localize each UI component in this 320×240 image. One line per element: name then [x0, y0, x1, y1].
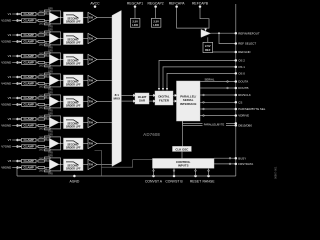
- svg-text:1MΩ: 1MΩ: [39, 158, 44, 160]
- svg-text:1MΩ: 1MΩ: [39, 11, 44, 13]
- resistor 1M ohm series (ch2 bottom): [36, 40, 49, 46]
- svg-text:1MΩ: 1MΩ: [39, 137, 44, 139]
- svg-text:ORDER LPF: ORDER LPF: [66, 61, 81, 65]
- op-amp PGA channel 1: [49, 13, 59, 23]
- input pin V1GND: [1, 19, 21, 23]
- reference 2.5V REF: [203, 37, 213, 52]
- svg-text:AVCC: AVCC: [90, 1, 100, 5]
- pin PAR/SER/BYTE SEL (right): [235, 107, 266, 111]
- svg-text:1MΩ: 1MΩ: [39, 53, 44, 55]
- wire SAR to digital filter: [149, 94, 156, 103]
- wire CS input: [200, 101, 236, 103]
- svg-text:REF: REF: [205, 48, 211, 52]
- wire T/H ch3 to mux: [97, 59, 112, 61]
- wire T/H ch1 to mux: [97, 17, 112, 19]
- op-amp PGA channel 5: [49, 97, 59, 107]
- svg-text:RFB: RFB: [48, 30, 53, 32]
- pin REFIN/REFOUT (right): [235, 31, 260, 35]
- filter SECOND-ORDER LPF channel 8: [59, 159, 83, 171]
- svg-text:1MΩ: 1MΩ: [39, 171, 44, 173]
- input pin V6: [8, 117, 22, 121]
- svg-text:T/H: T/H: [89, 100, 93, 104]
- svg-text:T/H: T/H: [89, 121, 93, 125]
- input pin V1: [8, 12, 22, 16]
- adc 18-BIT SAR: [135, 93, 149, 104]
- clamp block channel 5 (V5): [22, 96, 37, 100]
- op-amp reference buffer: [201, 30, 211, 38]
- clamp block channel 6 (V6): [22, 117, 37, 121]
- track-and-hold T/H channel 7: [83, 138, 97, 148]
- track-and-hold T/H channel 8: [83, 159, 97, 169]
- wire REFCAPA/REFCAPB to reference buffer: [177, 8, 209, 32]
- svg-text:CS: CS: [238, 101, 242, 105]
- clamp block channel 4 (V4GND): [22, 82, 37, 86]
- resistor 1M ohm series (ch4 bottom): [36, 82, 49, 88]
- svg-text:INPUTS: INPUTS: [178, 164, 189, 168]
- svg-text:V2GND: V2GND: [1, 40, 11, 44]
- wire T/H ch6 to mux: [97, 122, 112, 124]
- svg-text:1MΩ: 1MΩ: [39, 32, 44, 34]
- svg-text:OS 0: OS 0: [238, 72, 245, 76]
- wire mux to SAR: [121, 94, 136, 103]
- svg-text:ORDER LPF: ORDER LPF: [66, 103, 81, 107]
- wire REF SELECT: [218, 32, 236, 43]
- input pin V3GND: [1, 61, 21, 65]
- svg-text:RFB: RFB: [48, 111, 53, 113]
- wire interface to CLK OSC: [182, 121, 184, 146]
- svg-text:OS 1: OS 1: [238, 65, 245, 69]
- svg-text:V7GND: V7GND: [1, 145, 11, 149]
- svg-text:LDO: LDO: [132, 23, 138, 27]
- clamp block channel 8 (V8GND): [22, 166, 37, 170]
- svg-text:RD/SCLK: RD/SCLK: [238, 93, 251, 97]
- svg-text:RFB: RFB: [48, 174, 53, 176]
- wire T/H ch4 to mux: [97, 80, 112, 82]
- svg-text:CONVST B: CONVST B: [165, 180, 183, 184]
- resistor 1M ohm series (ch7 bottom): [36, 145, 49, 151]
- resistor 1M ohm series (ch3 bottom): [36, 61, 49, 67]
- clamp block channel 1 (V1GND): [22, 19, 37, 23]
- svg-text:1MΩ: 1MΩ: [39, 24, 44, 26]
- svg-text:CLK OSC: CLK OSC: [175, 148, 189, 152]
- resistor 1M ohm series (ch4 top): [36, 74, 49, 78]
- svg-text:V2: V2: [8, 33, 12, 37]
- svg-text:MUX: MUX: [113, 97, 120, 101]
- svg-text:CLAMP: CLAMP: [24, 33, 34, 37]
- svg-text:FRSTDATA: FRSTDATA: [238, 162, 253, 166]
- regulator 2.5V LDO (1): [130, 18, 140, 27]
- resistor RFB feedback (ch8): [44, 156, 61, 176]
- svg-text:1MΩ: 1MΩ: [39, 74, 44, 76]
- resistor 1M ohm series (ch1 bottom): [36, 19, 49, 25]
- input pin V2: [8, 33, 22, 37]
- svg-text:RFB: RFB: [48, 114, 53, 116]
- wire DOUTB (serial out): [200, 87, 236, 89]
- clamp block channel 3 (V3GND): [22, 61, 37, 65]
- pin RD/SCLK (right): [235, 93, 251, 97]
- pin BUSY (right): [235, 156, 247, 160]
- svg-text:CLAMP: CLAMP: [24, 82, 34, 86]
- svg-text:V4: V4: [8, 75, 12, 79]
- svg-text:DOUTA: DOUTA: [238, 80, 248, 84]
- input pin V2GND: [1, 40, 21, 44]
- svg-text:REF SELECT: REF SELECT: [238, 42, 256, 46]
- svg-text:CLAMP: CLAMP: [24, 124, 34, 128]
- op-amp PGA channel 7: [49, 139, 59, 149]
- wire T/H ch5 to mux: [97, 101, 112, 103]
- pin OS 1 (right): [235, 65, 246, 69]
- pin RANGE (bottom): [202, 168, 215, 183]
- filter SECOND-ORDER LPF channel 7: [59, 138, 83, 150]
- pin FRSTDATA (right): [235, 162, 254, 166]
- pin REGCAP2 (top): [147, 1, 163, 18]
- svg-text:RFB: RFB: [48, 153, 53, 155]
- svg-text:RFB: RFB: [48, 72, 53, 74]
- wire control routing to T/H: [95, 151, 153, 177]
- svg-text:REFGND: REFGND: [238, 50, 250, 54]
- wire OS 0 to digital filter: [166, 73, 236, 90]
- wire T/H ch7 to mux: [97, 143, 112, 145]
- svg-text:RFB: RFB: [48, 135, 53, 137]
- svg-text:ORDER LPF: ORDER LPF: [66, 145, 81, 149]
- svg-text:CLAMP: CLAMP: [24, 96, 34, 100]
- input pin V8: [8, 159, 22, 163]
- input pin V8GND: [1, 166, 21, 170]
- wire T/H ch2 to mux: [97, 38, 112, 40]
- svg-text:CLAMP: CLAMP: [24, 75, 34, 79]
- svg-text:RFB: RFB: [48, 48, 53, 50]
- svg-text:RFB: RFB: [48, 51, 53, 53]
- svg-text:V1: V1: [8, 12, 12, 16]
- op-amp PGA channel 4: [49, 76, 59, 86]
- wire buffer output to REFIN/REFOUT pin: [211, 32, 236, 34]
- svg-text:RFB: RFB: [48, 93, 53, 95]
- svg-text:AD7608: AD7608: [143, 132, 160, 137]
- svg-text:CLAMP: CLAMP: [24, 12, 34, 16]
- svg-text:ORDER LPF: ORDER LPF: [66, 166, 81, 170]
- clamp block channel 7 (V7GND): [22, 145, 37, 149]
- svg-text:V1GND: V1GND: [1, 19, 11, 23]
- svg-text:V3GND: V3GND: [1, 61, 11, 65]
- track-and-hold T/H channel 6: [83, 117, 97, 127]
- chip bottom border: [17, 169, 236, 176]
- svg-text:2.5V: 2.5V: [132, 20, 138, 24]
- resistor 1M ohm series (ch8 top): [36, 158, 49, 162]
- svg-text:T/H: T/H: [89, 79, 93, 83]
- resistor 1M ohm series (ch6 bottom): [36, 124, 49, 130]
- wire DOUTA (serial out): [200, 77, 236, 82]
- svg-text:CLAMP: CLAMP: [24, 19, 34, 23]
- resistor RFB feedback (ch5): [44, 93, 61, 113]
- svg-text:V6: V6: [8, 117, 12, 121]
- track-and-hold T/H channel 4: [83, 75, 97, 85]
- svg-text:RFB: RFB: [48, 27, 53, 29]
- svg-text:CLAMP: CLAMP: [24, 159, 34, 163]
- svg-text:V8GND: V8GND: [1, 166, 11, 170]
- svg-text:OS 2: OS 2: [238, 59, 245, 63]
- resistor RFB feedback (ch6): [44, 114, 61, 134]
- op-amp PGA channel 2: [49, 34, 59, 44]
- pin DOUTB (right): [235, 86, 249, 90]
- svg-text:CLAMP: CLAMP: [24, 138, 34, 142]
- svg-text:1MΩ: 1MΩ: [39, 45, 44, 47]
- resistor 1M ohm series (ch6 top): [36, 116, 49, 120]
- wire filter to interface: [173, 94, 177, 103]
- svg-text:INTERFACE: INTERFACE: [180, 102, 196, 106]
- clamp block channel 4 (V4): [22, 75, 37, 79]
- track-and-hold T/H channel 3: [83, 54, 97, 64]
- svg-text:T/H: T/H: [89, 163, 93, 167]
- regulator 2.5V LDO (2): [151, 18, 161, 27]
- track-and-hold T/H channel 2: [83, 33, 97, 43]
- svg-text:V7: V7: [8, 138, 12, 142]
- clamp block channel 8 (V8): [22, 159, 37, 163]
- input pin V7GND: [1, 145, 21, 149]
- resistor 1M ohm series (ch8 bottom): [36, 166, 49, 172]
- svg-text:V6GND: V6GND: [1, 124, 11, 128]
- filter SECOND-ORDER LPF channel 3: [59, 54, 83, 66]
- op-amp PGA channel 6: [49, 118, 59, 128]
- resistor RFB feedback (ch1): [44, 9, 61, 29]
- filter SECOND-ORDER LPF channel 5: [59, 96, 83, 108]
- resistor 1M ohm series (ch5 bottom): [36, 103, 49, 109]
- clamp block channel 2 (V2): [22, 33, 37, 37]
- op-amp PGA channel 3: [49, 55, 59, 65]
- svg-text:REGCAP1: REGCAP1: [127, 1, 143, 5]
- svg-text:ORDER LPF: ORDER LPF: [66, 124, 81, 128]
- clamp block channel 7 (V7): [22, 138, 37, 142]
- input pin V5GND: [1, 103, 21, 107]
- pin OS 2 (right): [235, 59, 246, 63]
- svg-text:ORDER LPF: ORDER LPF: [66, 82, 81, 86]
- resistor RFB feedback (ch2): [44, 30, 61, 50]
- pin AVCC (top): [90, 1, 100, 7]
- wire OS 1 to digital filter: [162, 67, 236, 91]
- svg-text:T/H: T/H: [89, 142, 93, 146]
- block DIGITAL FILTER: [155, 91, 173, 105]
- svg-text:T/H: T/H: [89, 16, 93, 20]
- svg-text:CLAMP: CLAMP: [24, 145, 34, 149]
- clamp block channel 6 (V6GND): [22, 124, 37, 128]
- mux 8:1 MUX: [112, 11, 121, 167]
- svg-text:1MΩ: 1MΩ: [39, 87, 44, 89]
- pin OS 0 (right): [235, 72, 246, 76]
- svg-text:REFCAPB: REFCAPB: [192, 1, 209, 5]
- pin RESET (bottom): [190, 168, 201, 183]
- svg-text:RFB: RFB: [48, 156, 53, 158]
- track-and-hold T/H channel 5: [83, 96, 97, 106]
- resistor 1M ohm series (ch2 top): [36, 32, 49, 36]
- pin REGCAP1 (top): [127, 1, 143, 18]
- track-and-hold T/H channel 1: [83, 12, 97, 22]
- pin CONVST B (bottom): [165, 168, 183, 183]
- chip right border: [235, 4, 237, 176]
- svg-text:CONVST A: CONVST A: [145, 180, 163, 184]
- wire BUSY output: [214, 157, 236, 159]
- svg-text:CLAMP: CLAMP: [24, 40, 34, 44]
- pin AGND (bottom): [70, 175, 80, 184]
- svg-text:ORDER LPF: ORDER LPF: [66, 40, 81, 44]
- pin REFCAPA (top): [169, 1, 186, 7]
- wire VDRIVE input: [200, 115, 236, 117]
- op-amp PGA channel 8: [49, 160, 59, 170]
- svg-text:RFB: RFB: [48, 132, 53, 134]
- svg-text:SERIAL: SERIAL: [205, 77, 215, 81]
- pin DB bus (right): [235, 122, 238, 125]
- svg-text:RANGE: RANGE: [202, 180, 215, 184]
- svg-text:T/H: T/H: [89, 58, 93, 62]
- pin DOUTA (right): [235, 80, 249, 84]
- svg-text:BUSY: BUSY: [238, 156, 246, 160]
- filter SECOND-ORDER LPF channel 6: [59, 117, 83, 129]
- svg-text:1MΩ: 1MΩ: [39, 95, 44, 97]
- svg-text:DB15/DB0: DB15/DB0: [238, 124, 252, 128]
- svg-text:V5GND: V5GND: [1, 103, 11, 107]
- input pin V5: [8, 96, 22, 100]
- wire FRSTDATA output: [214, 163, 236, 165]
- svg-text:RESET: RESET: [190, 180, 201, 184]
- svg-text:FILTER: FILTER: [159, 98, 170, 102]
- svg-text:PAR/SER/BYTE SEL: PAR/SER/BYTE SEL: [238, 107, 265, 111]
- svg-text:2.5V: 2.5V: [153, 20, 159, 24]
- svg-text:V8: V8: [8, 159, 12, 163]
- input pin V6GND: [1, 124, 21, 128]
- pin VDRIVE (right): [235, 114, 250, 118]
- input pin V4GND: [1, 82, 21, 86]
- wire OS 2 to digital filter: [158, 60, 236, 90]
- svg-text:REFIN/REFOUT: REFIN/REFOUT: [238, 31, 260, 35]
- wire CLK OSC to control inputs: [181, 151, 183, 158]
- resistor RFB feedback (ch7): [44, 135, 61, 155]
- svg-text:CLAMP: CLAMP: [24, 61, 34, 65]
- svg-text:AGND: AGND: [70, 180, 80, 184]
- svg-text:DOUTB: DOUTB: [238, 86, 248, 90]
- svg-text:RFB: RFB: [48, 69, 53, 71]
- wire PAR/SER/BYTE SEL input: [200, 108, 236, 110]
- block PARALLEL/SERIAL INTERFACE: [177, 81, 201, 121]
- wire REFGND: [213, 51, 236, 53]
- resistor 1M ohm series (ch3 top): [36, 53, 49, 57]
- pin CS (right): [235, 101, 243, 105]
- wire RD/SCLK input: [200, 94, 236, 96]
- svg-text:VDRIVE: VDRIVE: [238, 114, 249, 118]
- filter SECOND-ORDER LPF channel 4: [59, 75, 83, 87]
- filter SECOND-ORDER LPF channel 2: [59, 33, 83, 45]
- svg-text:ORDER LPF: ORDER LPF: [66, 19, 81, 23]
- pin REFGND (right): [235, 50, 251, 54]
- wire T/H ch8 to mux: [97, 164, 112, 166]
- svg-text:REFCAPA: REFCAPA: [169, 1, 186, 5]
- svg-text:RFB: RFB: [48, 90, 53, 92]
- svg-text:06807-001: 06807-001: [274, 166, 278, 179]
- pin DB15/DB0 (right): [235, 124, 253, 128]
- oscillator CLK OSC: [173, 146, 192, 151]
- svg-text:V5: V5: [8, 96, 12, 100]
- svg-text:PARALLEL/BYTE: PARALLEL/BYTE: [204, 122, 225, 126]
- resistor RFB feedback (ch4): [44, 72, 61, 92]
- svg-text:REGCAP2: REGCAP2: [147, 1, 163, 5]
- svg-text:LDO: LDO: [153, 23, 159, 27]
- resistor 1M ohm series (ch7 top): [36, 137, 49, 141]
- svg-text:CLAMP: CLAMP: [24, 54, 34, 58]
- svg-text:1MΩ: 1MΩ: [39, 129, 44, 131]
- svg-text:CLAMP: CLAMP: [24, 166, 34, 170]
- resistor RFB feedback (ch3): [44, 51, 61, 71]
- svg-text:V4GND: V4GND: [1, 82, 11, 86]
- svg-text:V3: V3: [8, 54, 12, 58]
- svg-text:1MΩ: 1MΩ: [39, 116, 44, 118]
- filter SECOND-ORDER LPF channel 1: [59, 12, 83, 24]
- clamp block channel 2 (V2GND): [22, 40, 37, 44]
- input pin V4: [8, 75, 22, 79]
- pin REF SELECT (right): [235, 42, 257, 46]
- input pin V7: [8, 138, 22, 142]
- clamp block channel 5 (V5GND): [22, 103, 37, 107]
- svg-text:1MΩ: 1MΩ: [39, 150, 44, 152]
- svg-text:RFB: RFB: [48, 9, 53, 11]
- pin CONVST A (bottom): [145, 168, 163, 183]
- pin REFCAPB (top): [192, 1, 209, 7]
- svg-text:CLAMP: CLAMP: [24, 103, 34, 107]
- svg-text:1MΩ: 1MΩ: [39, 108, 44, 110]
- svg-text:T/H: T/H: [89, 37, 93, 41]
- resistor 1M ohm series (ch1 top): [36, 11, 49, 15]
- svg-text:1MΩ: 1MΩ: [39, 66, 44, 68]
- svg-text:SAR: SAR: [139, 99, 146, 103]
- resistor 1M ohm series (ch5 top): [36, 95, 49, 99]
- svg-text:2.5V: 2.5V: [205, 44, 211, 48]
- input pin V3: [8, 54, 22, 58]
- clamp block channel 1 (V1): [22, 12, 37, 16]
- block CONTROL INPUTS: [153, 159, 215, 169]
- bus DB15/DB0 parallel data bus: [183, 121, 236, 127]
- svg-text:CLAMP: CLAMP: [24, 117, 34, 121]
- clamp block channel 3 (V3): [22, 54, 37, 58]
